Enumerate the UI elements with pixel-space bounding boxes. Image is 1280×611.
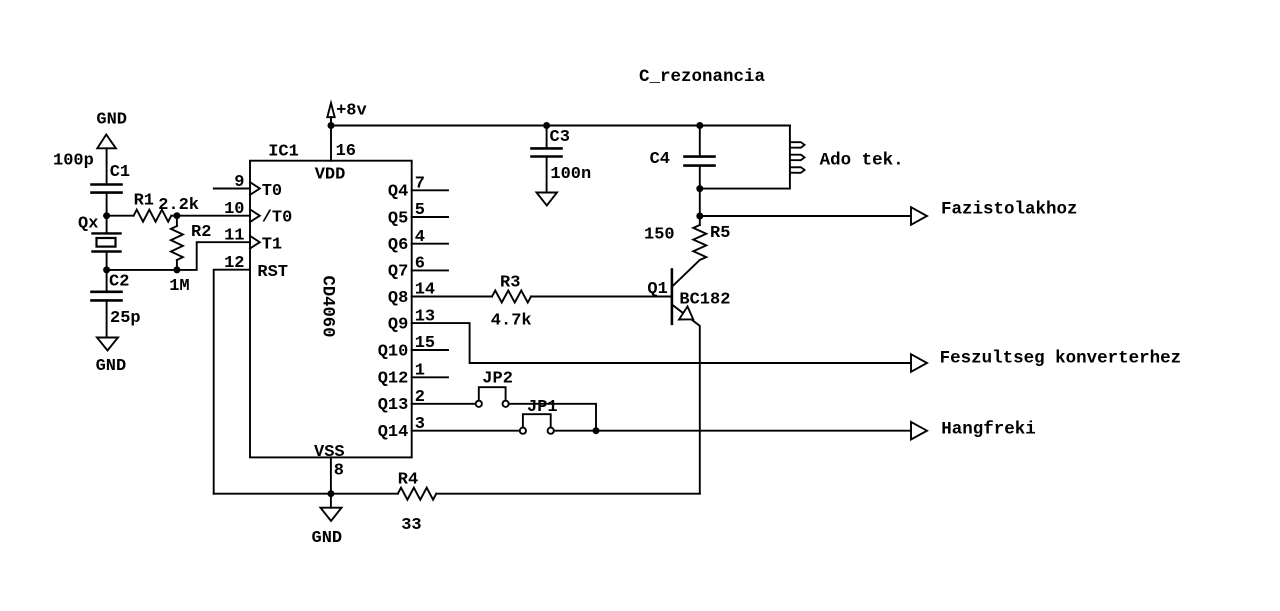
wire crystal bottom to pin 11 (107, 242, 250, 270)
svg-text:Q13: Q13 (378, 396, 409, 415)
capacitor C3 (532, 126, 562, 193)
wire crystal to C2 (106, 270, 108, 292)
svg-text:R1: R1 (134, 192, 154, 211)
svg-text:Q14: Q14 (378, 423, 409, 442)
svg-text:BC182: BC182 (679, 291, 730, 310)
wire R1 to pin 10 (171, 215, 250, 217)
svg-text:/T0: /T0 (262, 209, 293, 228)
pin 9 clock wedge (250, 182, 260, 195)
svg-text:2: 2 (415, 388, 425, 407)
svg-text:Qx: Qx (78, 215, 98, 234)
svg-text:Feszultseg konverterhez: Feszultseg konverterhez (940, 348, 1182, 368)
wire Q7 stub (412, 269, 448, 271)
wire bottom rail left (214, 493, 398, 495)
svg-text:GND: GND (96, 357, 127, 376)
svg-text:GND: GND (312, 529, 343, 548)
svg-text:R5: R5 (710, 224, 730, 243)
svg-text:C4: C4 (650, 150, 670, 169)
svg-text:3: 3 (415, 415, 425, 434)
wire pin 12 to bottom rail (214, 270, 250, 494)
svg-text:CD4060: CD4060 (318, 276, 337, 338)
ground GND (VSS) (321, 508, 342, 521)
wire Q12 stub (412, 376, 448, 378)
svg-text:1M: 1M (169, 277, 189, 296)
svg-text:R3: R3 (500, 273, 520, 292)
resistor R1 (134, 210, 172, 222)
svg-text:4: 4 (415, 228, 425, 247)
svg-text:5: 5 (415, 201, 425, 220)
pin 11 clock wedge (250, 236, 260, 249)
wire Q9 to Feszultseg arrow (412, 323, 911, 363)
svg-text:T0: T0 (262, 182, 282, 201)
svg-text:100n: 100n (550, 165, 591, 184)
svg-text:9: 9 (234, 173, 244, 192)
resistor R4 (398, 488, 437, 500)
svg-text:RST: RST (257, 263, 288, 282)
svg-text:C2: C2 (109, 273, 129, 292)
resistor R3 (492, 291, 531, 303)
ground GND (C3) (537, 193, 558, 206)
svg-text:Ado tek.: Ado tek. (820, 150, 904, 170)
svg-text:C_rezonancia: C_rezonancia (639, 67, 766, 87)
node Fazistolakhoz tap (696, 213, 703, 220)
wire Qx node to R1 (107, 215, 134, 217)
svg-text:IC1: IC1 (268, 143, 299, 162)
svg-text:+8v: +8v (336, 101, 367, 120)
wire bottom rail right (436, 493, 700, 495)
resistor R5 (693, 216, 706, 260)
svg-text:C3: C3 (550, 128, 570, 147)
svg-text:GND: GND (96, 111, 127, 130)
wire JP2 to JP1 junction (509, 404, 596, 431)
svg-text:13: 13 (415, 307, 435, 326)
wire Q6 stub (412, 243, 448, 245)
arrow Hangfreki (911, 422, 927, 440)
wire JP1 to Hangfreki arrow (554, 430, 911, 432)
svg-text:Hangfreki: Hangfreki (941, 420, 1036, 440)
svg-text:150: 150 (644, 226, 675, 245)
svg-text:Fazistolakhoz: Fazistolakhoz (941, 200, 1078, 220)
svg-text:2.2k: 2.2k (158, 196, 199, 215)
wire C4 bottom to Fazistolakhoz node (699, 189, 701, 216)
node R2 bottom (173, 266, 180, 273)
capacitor C2 (92, 292, 122, 338)
svg-text:Q9: Q9 (388, 315, 408, 334)
wire Q4 stub (412, 189, 448, 191)
svg-text:100p: 100p (53, 151, 94, 170)
svg-text:10: 10 (224, 200, 244, 219)
capacitor C1 (92, 185, 122, 216)
node Qx top (103, 212, 110, 219)
svg-text:16: 16 (336, 142, 356, 161)
svg-text:Q1: Q1 (647, 280, 667, 299)
transistor Q1 BC182 (672, 260, 700, 494)
wire Q5 stub (412, 216, 448, 218)
wire Q10 stub (412, 349, 448, 351)
svg-text:Q12: Q12 (378, 370, 409, 389)
wire R3 to Q1 base (531, 296, 672, 298)
svg-text:VSS: VSS (314, 443, 345, 462)
svg-text:JP2: JP2 (482, 369, 513, 388)
svg-text:VDD: VDD (315, 166, 346, 185)
power +8v (327, 103, 334, 126)
svg-text:Q7: Q7 (388, 263, 408, 282)
jumper JP1 (520, 414, 554, 434)
wire top rail (331, 125, 790, 127)
resistor R2 (171, 216, 183, 270)
node C4 tap (696, 122, 703, 129)
op-amp IC1 CD4060 box (250, 161, 412, 458)
wire pin 9 stub (214, 188, 250, 190)
svg-text:Q4: Q4 (388, 183, 408, 202)
node C3 tap (543, 122, 550, 129)
svg-text:8: 8 (334, 461, 344, 480)
arrow Fazistolakhoz (911, 207, 927, 225)
wire VSS pin 8 to ground (330, 457, 332, 507)
svg-text:1: 1 (415, 362, 425, 381)
node C4 bottom (696, 185, 703, 192)
svg-text:Q5: Q5 (388, 209, 408, 228)
node VDD rail (328, 122, 335, 129)
svg-text:4.7k: 4.7k (491, 312, 532, 331)
wire C1 to crystal (106, 216, 108, 234)
svg-text:T1: T1 (262, 235, 282, 254)
ground GND (top-left) (97, 135, 116, 185)
svg-text:11: 11 (224, 227, 244, 246)
svg-text:Q10: Q10 (378, 342, 409, 361)
capacitor C4 (685, 126, 715, 189)
svg-text:JP1: JP1 (527, 398, 558, 417)
svg-text:R2: R2 (191, 223, 211, 242)
node R1/R2 (173, 212, 180, 219)
svg-text:15: 15 (415, 334, 435, 353)
jumper JP2 (476, 387, 509, 407)
svg-text:Q6: Q6 (388, 236, 408, 255)
wire VDD pin 16 (330, 126, 332, 161)
svg-text:Q8: Q8 (388, 289, 408, 308)
svg-text:12: 12 (224, 254, 244, 273)
svg-text:7: 7 (415, 174, 425, 193)
crystal Qx (93, 233, 121, 270)
svg-text:C1: C1 (110, 163, 130, 182)
inductor Ado tek. (700, 126, 805, 189)
wire to Fazistolakhoz arrow (700, 215, 911, 217)
node Qx bottom (103, 266, 110, 273)
ground GND (below C2) (97, 338, 118, 351)
svg-text:14: 14 (415, 281, 435, 300)
pin 10 clock wedge (250, 209, 260, 222)
arrow Feszultseg konverterhez (911, 354, 927, 372)
svg-text:6: 6 (415, 255, 425, 274)
wire Q13 to JP2 (412, 403, 476, 405)
wire Q8 to R3 (412, 296, 492, 298)
svg-text:25p: 25p (110, 309, 141, 328)
svg-text:33: 33 (401, 516, 421, 535)
wire Q14 to JP1 (412, 430, 520, 432)
node VSS junction (327, 490, 334, 497)
node JP1 junction (593, 427, 600, 434)
svg-text:R4: R4 (398, 471, 418, 490)
